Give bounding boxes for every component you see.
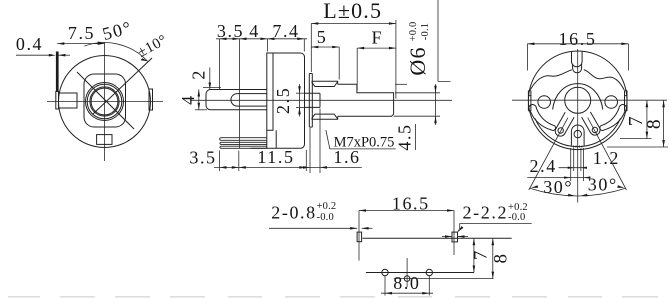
svg-text:-0.0: -0.0 xyxy=(508,212,525,223)
svg-text:2: 2 xyxy=(189,69,209,80)
dim 50 deg arc xyxy=(84,43,147,62)
svg-text:8: 8 xyxy=(644,118,665,129)
body outer circle xyxy=(59,56,151,148)
left flat band xyxy=(528,91,531,111)
wavy contour right xyxy=(584,70,624,90)
dim 4.5 text underline xyxy=(415,124,417,150)
svg-text:Ø6: Ø6 xyxy=(405,46,430,75)
faint cut-off row at bottom xyxy=(8,296,658,298)
svg-text:3.5: 3.5 xyxy=(189,148,216,168)
svg-text:+0.2: +0.2 xyxy=(317,201,337,212)
dim 4.5 line outside arrows xyxy=(435,84,437,125)
central circle xyxy=(565,87,591,113)
leg support block xyxy=(251,130,277,148)
dim 7 footprint line xyxy=(473,238,475,272)
svg-text:3.5: 3.5 xyxy=(217,21,244,41)
right slot xyxy=(452,232,458,242)
dim chain line 3.5 4 7.4 xyxy=(216,38,307,40)
diagonal slot line xyxy=(77,72,134,129)
dim 2.5 line outside arrows xyxy=(299,84,301,117)
dim 1.2 leader line xyxy=(559,167,588,169)
left tab wide rect xyxy=(59,93,78,108)
bottom notch rect xyxy=(97,135,112,145)
right slot label underline xyxy=(460,222,532,224)
center pin row line xyxy=(394,278,494,280)
wavy contour left xyxy=(530,70,572,90)
inner bottom arc xyxy=(535,118,620,146)
left rivet circle xyxy=(538,96,551,109)
svg-text:7.4: 7.4 xyxy=(272,21,299,41)
left slot centerline xyxy=(358,211,360,261)
right rivet circle xyxy=(605,96,618,109)
svg-text:30°: 30° xyxy=(588,175,618,195)
svg-text:4: 4 xyxy=(178,94,198,105)
svg-text:-0.0: -0.0 xyxy=(317,212,334,223)
svg-text:16.5: 16.5 xyxy=(559,29,597,49)
dim 2.5 extension lines xyxy=(296,92,306,94)
left tab thin rect xyxy=(56,92,59,110)
left pin hole xyxy=(382,269,388,275)
center pin hole xyxy=(404,276,410,282)
right slot width arrows xyxy=(442,236,452,238)
left lug capsule xyxy=(555,112,574,136)
dim 4 extension lines xyxy=(203,86,221,88)
body inner plate line xyxy=(267,53,273,130)
left anti-rotation tab (edge-on thick line) xyxy=(56,52,59,92)
shaft circle 1 xyxy=(86,83,124,121)
top notch lower slot xyxy=(573,64,582,73)
center lug base ticks xyxy=(574,145,583,147)
front view vertical centerline xyxy=(104,42,106,161)
rear outer circle xyxy=(528,51,627,150)
shaft circle 3 xyxy=(90,87,119,116)
svg-text:4: 4 xyxy=(249,21,260,41)
dim 8.0 extension lines xyxy=(384,276,386,296)
left slot width arrows xyxy=(269,227,357,229)
dim 5 line xyxy=(311,46,339,48)
shaft outline with flat xyxy=(338,84,394,116)
svg-text:L±0.5: L±0.5 xyxy=(323,0,382,23)
front view horizontal centerline xyxy=(47,101,163,103)
right lug capsule xyxy=(582,112,600,135)
30 deg arc xyxy=(530,188,626,196)
right pin hole xyxy=(426,269,432,275)
terminal leg 2 xyxy=(220,142,267,144)
center lug arch xyxy=(571,125,584,146)
dim 8.0 line xyxy=(381,292,433,294)
side view centerline xyxy=(190,99,452,101)
svg-text:-0.1: -0.1 xyxy=(420,23,431,40)
shaft circle 4 xyxy=(91,88,118,115)
svg-text:1.2: 1.2 xyxy=(593,148,620,168)
svg-text:2-0.8: 2-0.8 xyxy=(271,203,317,223)
dim 3.5 / 11.5 bottom line xyxy=(214,166,306,168)
bushing rounded square xyxy=(84,74,126,127)
dim 8 footprint line xyxy=(492,238,494,278)
right crescent pocket xyxy=(600,105,627,131)
dim 4.5 extension lines xyxy=(395,83,407,85)
fork terminal outer xyxy=(206,90,267,110)
dim 16.5 rear extension lines xyxy=(526,44,528,71)
dim 7.5 line xyxy=(57,43,104,45)
right flat band xyxy=(625,91,628,111)
dim 16.5 rear line xyxy=(527,43,628,45)
svg-text:30°: 30° xyxy=(543,177,573,197)
right lug hole xyxy=(592,127,597,132)
right slot centerline xyxy=(453,211,455,256)
terminal leg 3 xyxy=(220,146,267,148)
dim 16.5 footprint line xyxy=(359,210,454,212)
angle line right 30 xyxy=(588,118,627,190)
svg-text:+0.0: +0.0 xyxy=(408,22,419,42)
rotation pointer line xyxy=(93,58,153,115)
svg-text:7.5: 7.5 xyxy=(68,23,95,43)
contour arch around central circle xyxy=(553,84,603,110)
svg-text:8.0: 8.0 xyxy=(393,273,420,293)
thread inner lines with chamfers xyxy=(312,82,338,119)
lug hole extension lines xyxy=(570,148,572,181)
top notch xyxy=(572,52,583,67)
M7 label underline and leader xyxy=(326,130,396,149)
svg-text:1.6: 1.6 xyxy=(333,147,360,167)
svg-text:7: 7 xyxy=(471,249,492,260)
dim 8 line xyxy=(663,100,665,147)
shaft circle 2 xyxy=(87,84,122,119)
right tab rect xyxy=(149,89,153,110)
hub lines xyxy=(305,93,320,107)
dim 7 line xyxy=(646,100,648,138)
left crescent pocket xyxy=(529,105,556,131)
dim L line xyxy=(311,23,396,25)
dim 2 line xyxy=(209,67,211,89)
right slot leader xyxy=(459,223,461,229)
dim 0.4 leader left arrow xyxy=(16,54,52,56)
left lug hole xyxy=(558,128,563,133)
fork terminal inner slot xyxy=(231,94,267,107)
svg-text:5: 5 xyxy=(317,27,328,47)
extension lines top chain xyxy=(219,39,221,89)
body outline xyxy=(267,53,305,148)
extension lines L 5 F xyxy=(310,24,312,73)
dim F line xyxy=(357,47,396,49)
dim 0.4 right arrow xyxy=(58,54,70,56)
rear view vertical centerline xyxy=(577,49,579,203)
thread outer profile xyxy=(312,81,338,119)
svg-text:0.4: 0.4 xyxy=(16,34,43,54)
pin row line xyxy=(366,272,474,274)
dim 1.6 line xyxy=(301,166,362,168)
left slot xyxy=(357,232,362,242)
svg-text:11.5: 11.5 xyxy=(257,147,294,167)
body edge line xyxy=(363,237,512,239)
svg-text:2-2.2: 2-2.2 xyxy=(463,203,509,223)
svg-text:8: 8 xyxy=(490,252,511,263)
dim 2.4 leader line xyxy=(527,177,590,179)
angle line left 30 xyxy=(529,118,568,190)
dim 4 line xyxy=(198,90,200,110)
dia6 reference vertical line xyxy=(438,0,451,81)
center pin crosshair vertical xyxy=(406,258,408,287)
center lug hole xyxy=(574,130,581,137)
bushing flange xyxy=(309,74,312,128)
rear view horizontal centerline xyxy=(512,99,667,101)
terminal leg 1 xyxy=(220,138,267,141)
svg-text:F: F xyxy=(371,28,383,48)
svg-text:2.4: 2.4 xyxy=(530,156,557,176)
svg-text:2.5: 2.5 xyxy=(273,87,293,114)
dim 7 8 extension lines xyxy=(620,138,652,140)
svg-text:4.5: 4.5 xyxy=(395,123,415,150)
bottom dims: extension lines xyxy=(219,151,221,172)
